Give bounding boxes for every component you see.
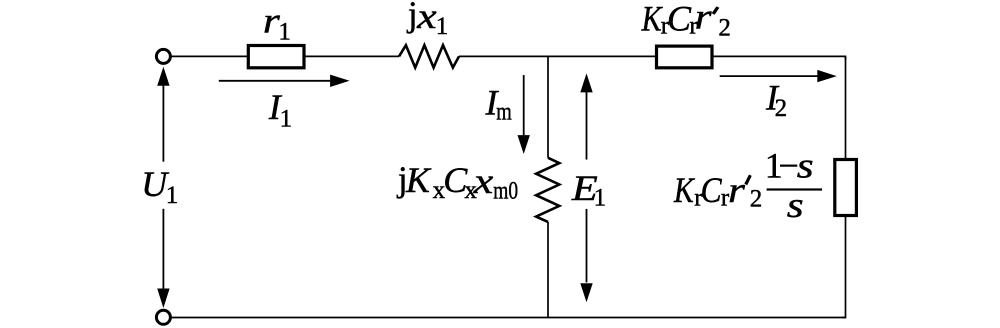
wire middle branch upper from top wire to magnetizing inductor <box>547 56 549 157</box>
wire right branch lower from box to bottom-right corner <box>842 216 846 318</box>
wire top segment from jx1 through node to resistor KrCrr'2 <box>459 55 656 57</box>
label I2 <box>765 78 787 123</box>
svg-text:1: 1 <box>278 18 291 45</box>
arrow E1 double-headed <box>580 73 592 302</box>
wire right branch upper from corner to rotor resistor box <box>845 56 847 159</box>
label jKxCxxm0 <box>396 159 518 205</box>
svg-text:2: 2 <box>750 186 763 213</box>
svg-text:C: C <box>667 0 692 38</box>
label KrCrr'2 <box>641 0 731 42</box>
inductor jKxCxxm0 vertical zigzag <box>536 158 559 222</box>
svg-text:m: m <box>496 98 512 125</box>
svg-text:−: − <box>779 146 799 186</box>
wire middle branch lower from inductor to bottom wire <box>547 222 549 318</box>
label r1 <box>263 1 291 46</box>
svg-text:j: j <box>406 0 418 34</box>
svg-text:K: K <box>405 160 432 200</box>
resistor KrCrr'2 (box) <box>657 46 713 68</box>
svg-text:x: x <box>473 161 494 201</box>
wire top segment from KrCrr'2 to right corner <box>712 56 846 60</box>
svg-text:2: 2 <box>718 15 731 42</box>
label U1 <box>141 164 178 209</box>
arrow Im (magnetizing current) <box>518 75 530 154</box>
label I1 <box>268 87 292 133</box>
arrow I1 <box>219 75 350 87</box>
wire bottom from terminal T2 to bottom-right corner <box>170 317 845 319</box>
svg-text:C: C <box>701 170 723 210</box>
label KrCrr'2 (1-s)/s <box>673 146 822 225</box>
arrow I2 <box>720 70 837 82</box>
resistor r1 <box>248 46 304 68</box>
terminal T2 bottom-left <box>156 310 170 324</box>
svg-text:1: 1 <box>166 182 179 209</box>
label E1 <box>571 168 606 212</box>
resistor KrCrr'2(1-s)/s (vertical box) <box>835 160 857 216</box>
label jx1 <box>406 0 449 40</box>
svg-text:1: 1 <box>436 13 449 40</box>
svg-text:1: 1 <box>280 105 293 132</box>
svg-text:1: 1 <box>594 184 607 211</box>
inductor jx1 zigzag <box>399 45 459 67</box>
svg-text:K: K <box>673 170 695 210</box>
svg-text:x: x <box>416 0 437 36</box>
wire top segment from r1 to inductor jx1 <box>304 55 399 57</box>
svg-text:r: r <box>695 0 713 37</box>
svg-text:r: r <box>728 170 746 210</box>
svg-text:2: 2 <box>775 95 788 122</box>
svg-text:s: s <box>787 185 804 225</box>
arrow U1 double-headed voltage <box>157 67 169 308</box>
label Im <box>485 83 513 126</box>
terminal T1 top-left <box>156 49 170 63</box>
svg-text:m0: m0 <box>493 178 518 205</box>
wire top segment from T1 to resistor r1 <box>170 55 248 57</box>
svg-text:s: s <box>797 146 814 186</box>
